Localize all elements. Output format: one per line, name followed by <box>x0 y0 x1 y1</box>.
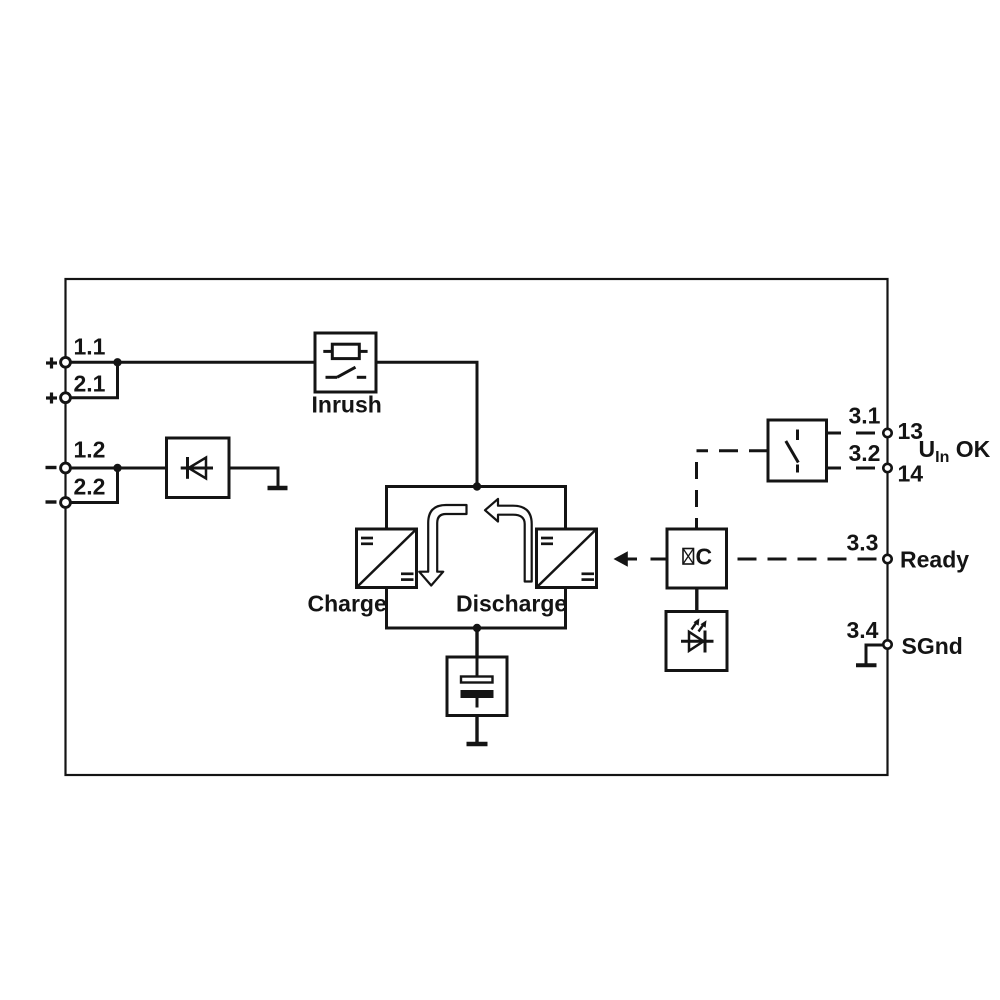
microcontroller box uC <box>667 529 727 588</box>
svg-text:2.2: 2.2 <box>74 474 106 500</box>
svg-text:2.1: 2.1 <box>74 371 106 397</box>
svg-text:C: C <box>696 544 713 570</box>
svg-text:Inrush: Inrush <box>312 391 382 417</box>
terminal 1.1 <box>46 357 70 368</box>
ground: minus rail ground <box>268 486 288 491</box>
switch: inrush bypass contact <box>326 367 367 377</box>
svg-text:Ready: Ready <box>900 546 969 572</box>
wire: relay output to terminal 13 (dashed) <box>827 432 884 435</box>
svg-text:3.2: 3.2 <box>849 440 881 466</box>
wire: battery to ground <box>475 716 478 743</box>
LED symbol <box>681 618 714 652</box>
dc/dc converter: charge converter <box>357 529 417 588</box>
ground: battery ground <box>467 742 488 747</box>
terminal SGnd (3.4) <box>883 640 891 648</box>
terminal 13 <box>883 429 891 437</box>
wire: relay output to terminal 14 (dashed) <box>827 467 884 470</box>
junction: 1.2/2.2 node <box>113 464 121 472</box>
junction: 1.1/2.1 node <box>113 358 121 366</box>
wire: diode to ground <box>229 468 278 486</box>
svg-text:Charge: Charge <box>308 591 387 617</box>
wire: control line down to uC (dashed) <box>695 462 698 529</box>
svg-text:1.2: 1.2 <box>74 437 106 463</box>
svg-text:1.1: 1.1 <box>74 334 106 360</box>
wire: uC to discharge converter control (dashed with arrow) <box>614 551 666 567</box>
dc/dc converter: discharge converter <box>537 529 597 588</box>
junction: loop bottom node <box>473 624 481 632</box>
diode: reverse polarity diode symbol <box>181 457 213 479</box>
svg-text:UIn OK: UIn OK <box>919 436 991 466</box>
wire: +input 1.1 to Inrush <box>70 361 315 364</box>
terminal 14 <box>883 464 891 472</box>
terminal 2.2 <box>46 498 71 508</box>
LED box <box>666 612 727 671</box>
wire: uC to Ready terminal (dashed) <box>727 558 884 561</box>
arrow: charge direction (bent down arrow) <box>419 505 466 586</box>
battery box BT1 <box>447 657 507 716</box>
junction: loop top node <box>473 482 481 490</box>
wire: uC to LED <box>695 588 698 612</box>
terminal 2.1 <box>46 393 70 404</box>
svg-text:3.3: 3.3 <box>847 530 879 556</box>
resistor: inrush resistor <box>323 344 367 358</box>
module boundary box <box>66 279 888 775</box>
svg-text:14: 14 <box>898 460 924 486</box>
terminal 1.2 <box>46 463 71 473</box>
svg-text:Discharge: Discharge <box>456 591 567 617</box>
svg-text:SGnd: SGnd <box>902 633 963 659</box>
terminal Ready (3.3) <box>883 555 891 563</box>
ground: SGnd ground symbol <box>856 645 883 665</box>
wire: -input 1.2 to diode <box>70 467 167 470</box>
relay box K1 <box>768 420 827 481</box>
label: uC (missing-glyph box + C) <box>683 544 712 570</box>
wire: 2.1 jumper to node <box>70 362 118 397</box>
wire: loop to battery <box>475 628 478 657</box>
inrush limiter box U1 <box>315 333 376 392</box>
capacitor/battery cell symbol <box>461 659 494 708</box>
switch: relay contact <box>786 430 799 473</box>
wire: charge/discharge loop <box>387 487 566 629</box>
wire: 2.2 jumper to node <box>70 468 118 503</box>
svg-text:3.4: 3.4 <box>847 617 879 643</box>
arrow: discharge direction (bent left arrow) <box>485 499 532 582</box>
svg-text:3.1: 3.1 <box>849 402 881 428</box>
wire: relay coil control (dashed) <box>697 449 769 452</box>
diode D1 box <box>167 438 230 498</box>
wire: Inrush output to converter bus <box>376 362 477 486</box>
